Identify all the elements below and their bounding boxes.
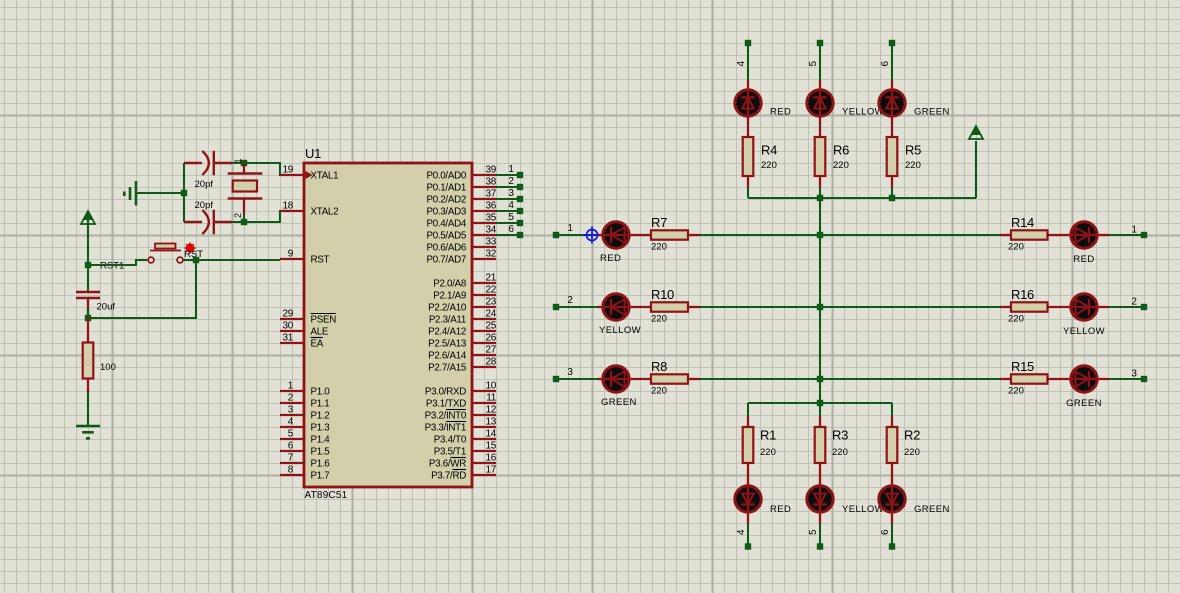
wire ground to cap net (136, 192, 184, 194)
svg-text:GREEN: GREEN (601, 397, 637, 408)
svg-text:XTAL1: XTAL1 (311, 171, 339, 182)
pin 35 P0.4/AD4 stub (472, 222, 496, 224)
terminal 1 (mcu side) (517, 172, 523, 178)
capacitor C1 20pf (184, 151, 232, 175)
wire terminal to LED YELLOW (556, 306, 598, 308)
terminal 2 (row left) (553, 304, 559, 310)
XTAL1 clock marker (306, 171, 313, 179)
wire terminal to LED RED (556, 234, 598, 236)
svg-text:3: 3 (508, 188, 514, 199)
svg-text:R1: R1 (760, 428, 776, 443)
pin 29 PSEN stub (280, 318, 304, 320)
wire power arrow to RST1 node (87, 215, 89, 265)
LED RED (row 1 left) (601, 222, 630, 248)
pin 32 P0.7/AD7 stub (472, 258, 496, 260)
wire R6 to top bus (819, 188, 821, 198)
pin 21 P2.0/A8 stub (472, 282, 496, 284)
svg-text:39: 39 (485, 165, 496, 176)
svg-text:EA: EA (311, 339, 324, 350)
resistor R2 bottom lead (891, 463, 893, 484)
terminal 5 (top) (817, 40, 823, 46)
capacitor C-RST 20uf top lead (87, 265, 89, 291)
terminal 1 (row left) (553, 232, 559, 238)
LED to R7 lead (631, 234, 651, 236)
resistor R3 bottom lead (819, 463, 821, 484)
svg-text:P1.6: P1.6 (311, 459, 331, 470)
resistor R7 body (651, 230, 688, 239)
pin 33 P0.6/AD6 stub (472, 246, 496, 248)
svg-text:P2.1/A9: P2.1/A9 (433, 291, 466, 302)
op: none; U1 AT89C51 body (304, 163, 472, 487)
resistor R2 top lead (891, 416, 893, 427)
svg-text:25: 25 (485, 321, 496, 332)
svg-text:5: 5 (508, 212, 514, 223)
node crystal pin1 junction (241, 160, 247, 166)
resistor R8 right lead (688, 378, 700, 380)
svg-text:GREEN: GREEN (914, 504, 950, 515)
resistor R6 body (815, 137, 826, 176)
terminal 6 (top) (889, 40, 895, 46)
svg-text:38: 38 (485, 177, 496, 188)
wire terminal to LED GREEN (556, 378, 598, 380)
svg-text:R15: R15 (1011, 359, 1034, 374)
svg-text:16: 16 (485, 453, 496, 464)
LED RED top lead (747, 80, 749, 88)
wire trunk (top bus to bottom bus) (819, 198, 821, 403)
resistor R15 body (1011, 374, 1048, 383)
wire LED to terminal 2 right (1109, 306, 1144, 308)
pin 11 P3.1/TXD stub (472, 402, 496, 404)
pin 5 P1.4 stub (280, 438, 304, 440)
wire lower junction to button-right net (88, 260, 196, 318)
svg-text:YELLOW: YELLOW (842, 504, 884, 515)
svg-text:28: 28 (485, 357, 496, 368)
wire terminal to LED YELLOW top (819, 43, 821, 80)
pin 28 P2.7/A15 stub (472, 366, 496, 368)
terminal 4 (bottom) (745, 543, 751, 549)
resistor R16 left lead (1000, 306, 1011, 308)
overline INT1 (446, 421, 466, 423)
wire terminal to LED GREEN top (891, 43, 893, 80)
svg-text:P2.2/A10: P2.2/A10 (428, 303, 467, 314)
svg-text:3: 3 (1131, 369, 1137, 380)
svg-text:P3.6/WR: P3.6/WR (429, 459, 466, 470)
node crystal pin2 junction (241, 219, 247, 225)
button left contact wire (136, 259, 147, 261)
svg-text:9: 9 (288, 249, 294, 260)
resistor R16 body (1011, 302, 1048, 311)
junction row 1 at trunk (817, 232, 823, 238)
svg-text:15: 15 (485, 441, 496, 452)
pin 25 P2.4/A12 stub (472, 330, 496, 332)
svg-text:12: 12 (485, 405, 496, 416)
ground (76, 426, 100, 438)
wire R4 to top bus (747, 188, 749, 198)
svg-text:5: 5 (808, 61, 819, 67)
svg-text:P3.5/T1: P3.5/T1 (434, 447, 466, 458)
pin 26 P2.5/A13 stub (472, 342, 496, 344)
svg-text:GREEN: GREEN (1066, 398, 1102, 409)
LED GREEN (bottom group) (879, 484, 905, 513)
terminal 3 (row right) (1141, 376, 1147, 382)
svg-text:P3.3/INT1: P3.3/INT1 (425, 423, 466, 434)
svg-text:P0.5/AD5: P0.5/AD5 (426, 231, 466, 242)
svg-text:XTAL2: XTAL2 (311, 207, 339, 218)
svg-text:P2.6/A14: P2.6/A14 (428, 351, 467, 362)
svg-text:R14: R14 (1011, 215, 1034, 230)
LED GREEN right lead (1099, 378, 1109, 380)
node button-right junction (193, 257, 199, 263)
pin 17 P3.7/RD stub (472, 474, 496, 476)
svg-text:220: 220 (651, 242, 667, 253)
junction row 2 at trunk (817, 304, 823, 310)
pin 22 P2.1/A9 stub (472, 294, 496, 296)
wire bus to R1 (747, 403, 749, 416)
svg-text:220: 220 (833, 160, 849, 171)
origin marker (blue crosshair) (584, 227, 601, 244)
svg-text:P1.0: P1.0 (311, 387, 331, 398)
svg-text:3: 3 (567, 367, 573, 378)
svg-text:PSEN: PSEN (311, 315, 337, 326)
resistor R15 left lead (1000, 378, 1011, 380)
node RST1 junction (85, 262, 91, 268)
svg-text:5: 5 (288, 429, 294, 440)
svg-text:27: 27 (485, 345, 496, 356)
svg-text:4: 4 (288, 417, 294, 428)
wire row 1 to right side (700, 234, 1000, 236)
wire junction to RST pin (196, 259, 280, 261)
wire P0.4 to terminal 5 (496, 222, 520, 224)
LED GREEN (top group) (879, 88, 905, 117)
LED RED (top group) (735, 88, 761, 117)
wire terminal to LED RED top (747, 43, 749, 80)
wire P0.0 to terminal 1 (496, 174, 520, 176)
pin 36 P0.3/AD3 stub (472, 210, 496, 212)
LED RED (row 1 right) (1069, 222, 1098, 248)
terminal 5 (mcu side) (517, 220, 523, 226)
wire LED to terminal 6 bottom (891, 524, 893, 546)
pin 31 EA stub (280, 342, 304, 344)
LED YELLOW bottom lead (819, 514, 821, 524)
pin 7 P1.6 stub (280, 462, 304, 464)
pin 10 P3.0/RXD stub (472, 390, 496, 392)
wire button to pin9 net (183, 259, 196, 261)
wire resistor to ground (87, 392, 89, 426)
resistor 100 bottom lead (87, 379, 89, 393)
wire top bus (748, 197, 976, 199)
svg-text:R10: R10 (651, 287, 674, 302)
overline PSEN (311, 313, 336, 315)
resistor R2 body (887, 427, 898, 463)
LED YELLOW (row 2 left) (601, 294, 630, 320)
svg-text:19: 19 (282, 165, 293, 176)
pin 4 P1.3 stub (280, 426, 304, 428)
svg-text:R4: R4 (761, 143, 777, 158)
terminal 4 (top) (745, 40, 751, 46)
LED to R5 lead (891, 118, 893, 137)
resistor R3 top lead (819, 416, 821, 427)
junction top bus R5 (889, 195, 895, 201)
svg-text:14: 14 (485, 429, 496, 440)
LED D-YELLOW-left lead (598, 306, 601, 308)
wire bottom bus (748, 402, 892, 404)
svg-text:220: 220 (1008, 386, 1024, 397)
LED to R8 lead (631, 378, 651, 380)
svg-text:P2.4/A12: P2.4/A12 (428, 327, 466, 338)
resistor 100 top lead (87, 318, 89, 343)
svg-text:2: 2 (1131, 297, 1137, 308)
svg-text:RED: RED (1073, 254, 1094, 265)
resistor R7 right lead (688, 234, 700, 236)
wire P0.3 to terminal 4 (496, 210, 520, 212)
svg-text:11: 11 (486, 393, 497, 404)
svg-text:1: 1 (567, 223, 573, 234)
svg-text:P0.2/AD2: P0.2/AD2 (426, 195, 466, 206)
LED YELLOW (top group) (807, 88, 833, 117)
svg-text:220: 220 (1008, 314, 1024, 325)
wire LED to terminal 4 bottom (747, 524, 749, 546)
svg-text:P1.3: P1.3 (311, 423, 331, 434)
pin 1 P1.0 stub (280, 390, 304, 392)
power terminal up-arrow (top right) (969, 126, 983, 139)
pin 38 P0.1/AD1 stub (472, 186, 496, 188)
LED GREEN (row 3 left) (601, 366, 630, 392)
svg-text:4: 4 (736, 61, 747, 67)
crystal X1 top plate (228, 172, 263, 175)
svg-text:29: 29 (282, 309, 293, 320)
button RST right contact (177, 257, 183, 263)
svg-text:RED: RED (600, 253, 621, 264)
svg-text:20uf: 20uf (97, 302, 116, 313)
svg-text:100: 100 (100, 362, 116, 373)
svg-text:R6: R6 (833, 143, 849, 158)
resistor R1 body (743, 427, 754, 463)
svg-text:R7: R7 (651, 215, 667, 230)
svg-text:P0.4/AD4: P0.4/AD4 (426, 219, 466, 230)
svg-text:P0.1/AD1: P0.1/AD1 (426, 183, 466, 194)
svg-text:P2.3/A11: P2.3/A11 (429, 315, 466, 326)
svg-text:34: 34 (485, 225, 496, 236)
resistor R14 left lead (1000, 234, 1011, 236)
pin 2 P1.1 stub (280, 402, 304, 404)
svg-text:P2.7/A15: P2.7/A15 (428, 363, 467, 374)
wire bus to R2 (891, 403, 893, 416)
svg-text:YELLOW: YELLOW (599, 325, 641, 336)
LED RED right lead (1099, 234, 1109, 236)
pin 9 RST stub (280, 258, 304, 260)
pin 14 P3.4/T0 stub (472, 438, 496, 440)
svg-text:U1: U1 (305, 146, 321, 161)
svg-text:1: 1 (233, 158, 243, 163)
resistor R1 top lead (747, 416, 749, 427)
overline RD (453, 469, 466, 471)
svg-text:P1.5: P1.5 (311, 447, 331, 458)
svg-text:6: 6 (288, 441, 294, 452)
pin 3 P1.2 stub (280, 414, 304, 416)
LED RED bottom lead (747, 514, 749, 524)
resistor R5 body (887, 137, 898, 176)
pin 15 P3.5/T1 stub (472, 450, 496, 452)
svg-text:6: 6 (508, 224, 514, 235)
wire LED to terminal 1 right (1109, 234, 1144, 236)
svg-text:220: 220 (651, 314, 667, 325)
wire cap left vertical (183, 163, 185, 222)
wire P0.5 to terminal 6 (496, 234, 520, 236)
svg-text:21: 21 (485, 273, 496, 284)
button RST actuator (155, 244, 176, 249)
pin 30 ALE stub (280, 330, 304, 332)
svg-text:2: 2 (288, 393, 294, 404)
ground (crystal) left-pointing (124, 181, 136, 206)
button RST left contact (148, 257, 154, 263)
wire bus to R3 (819, 403, 821, 416)
svg-text:4: 4 (508, 200, 514, 211)
svg-text:33: 33 (485, 237, 496, 248)
wire RST1 node to button (88, 260, 146, 265)
LED YELLOW right lead (1099, 306, 1109, 308)
svg-text:24: 24 (485, 309, 496, 320)
resistor R10 right lead (688, 306, 700, 308)
wire row 2 to right side (700, 306, 1000, 308)
svg-text:RST: RST (311, 255, 330, 266)
svg-text:1: 1 (288, 381, 294, 392)
resistor R6 bottom lead (819, 176, 821, 188)
terminal 1 (row right) (1141, 232, 1147, 238)
svg-text:P3.7/RD: P3.7/RD (431, 471, 466, 482)
svg-text:4: 4 (736, 529, 747, 535)
svg-text:P3.4/T0: P3.4/T0 (434, 435, 467, 446)
svg-text:1: 1 (508, 164, 514, 175)
svg-text:220: 220 (761, 160, 777, 171)
wire C1 to XTAL1 (232, 163, 281, 175)
wire C2 to XTAL2 (232, 211, 281, 222)
terminal 6 (mcu side) (517, 232, 523, 238)
svg-text:RED: RED (770, 107, 791, 118)
wire row 3 to right side (700, 378, 1000, 380)
svg-text:P3.2/INT0: P3.2/INT0 (425, 411, 467, 422)
power terminal up-arrow (reset supply) (81, 211, 95, 224)
capacitor C-RST bottom lead (87, 298, 89, 318)
svg-text:220: 220 (1008, 242, 1024, 253)
resistor R3 body (815, 427, 826, 463)
junction top bus R6 (817, 195, 823, 201)
svg-text:P1.2: P1.2 (311, 411, 330, 422)
resistor 100 body (83, 343, 94, 379)
svg-text:32: 32 (485, 249, 496, 260)
svg-text:220: 220 (904, 447, 920, 458)
overline EA (311, 337, 323, 339)
svg-text:YELLOW: YELLOW (842, 107, 884, 118)
svg-text:220: 220 (905, 160, 921, 171)
pin 16 P3.6/WR stub (472, 462, 496, 464)
LED to R10 lead (631, 306, 651, 308)
terminal 5 (bottom) (817, 543, 823, 549)
LED GREEN top lead (891, 80, 893, 88)
svg-text:37: 37 (485, 189, 496, 200)
pin 6 P1.5 stub (280, 450, 304, 452)
svg-text:AT89C51: AT89C51 (305, 490, 348, 501)
svg-text:7: 7 (288, 453, 294, 464)
pin 37 P0.2/AD2 stub (472, 198, 496, 200)
svg-text:220: 220 (760, 447, 776, 458)
node lower junction (85, 315, 91, 321)
svg-text:20pf: 20pf (195, 200, 214, 211)
pin 39 P0.0/AD0 stub (472, 174, 496, 176)
overline WR (450, 457, 466, 459)
terminal 3 (mcu side) (517, 196, 523, 202)
resistor R15 right lead (1048, 378, 1070, 380)
svg-text:18: 18 (282, 201, 293, 212)
overline INT0 (446, 409, 466, 411)
terminal 4 (mcu side) (517, 208, 523, 214)
svg-text:YELLOW: YELLOW (1063, 326, 1105, 337)
capacitor C2 20pf (184, 210, 232, 234)
svg-text:20pf: 20pf (195, 179, 214, 190)
svg-text:P0.7/AD7: P0.7/AD7 (426, 255, 466, 266)
svg-text:1: 1 (1131, 225, 1137, 236)
terminal 3 (row left) (553, 376, 559, 382)
node cap-net junction (181, 190, 187, 196)
svg-text:22: 22 (485, 285, 496, 296)
pin 24 P2.3/A11 stub (472, 318, 496, 320)
svg-text:RED: RED (770, 504, 791, 515)
pin 34 P0.5/AD5 stub (472, 234, 496, 236)
svg-text:220: 220 (651, 386, 667, 397)
svg-text:13: 13 (485, 417, 496, 428)
svg-text:R5: R5 (905, 143, 921, 158)
wire cap to lower junction (87, 308, 89, 318)
svg-text:31: 31 (282, 333, 293, 344)
pin 18 XTAL2 stub (280, 210, 304, 212)
LED YELLOW (row 2 right) (1069, 294, 1098, 320)
resistor R4 bottom lead (747, 176, 749, 188)
svg-text:P1.4: P1.4 (311, 435, 331, 446)
junction bottom bus trunk (817, 400, 823, 406)
resistor R8 body (651, 374, 688, 383)
pin 19 XTAL1 stub (280, 174, 304, 176)
svg-text:23: 23 (485, 297, 496, 308)
LED YELLOW (bottom group) (807, 484, 833, 513)
crystal X1 bottom plate (228, 197, 263, 200)
resistor R10 body (651, 302, 688, 311)
LED D-RED-left lead (598, 234, 601, 236)
terminal 6 (bottom) (889, 543, 895, 549)
button red actuation marker (185, 243, 196, 254)
LED to R4 lead (747, 118, 749, 137)
svg-text:R3: R3 (832, 428, 848, 443)
LED GREEN bottom lead (891, 514, 893, 524)
svg-text:220: 220 (832, 447, 848, 458)
resistor R1 bottom lead (747, 463, 749, 484)
svg-text:2: 2 (508, 176, 514, 187)
svg-text:R2: R2 (904, 428, 920, 443)
LED to R6 lead (819, 118, 821, 137)
resistor R5 bottom lead (891, 176, 893, 188)
capacitor C-RST 20uf plates (76, 292, 100, 298)
wire R5 to top bus (891, 188, 893, 198)
svg-text:35: 35 (485, 213, 496, 224)
wire LED to terminal 5 bottom (819, 524, 821, 546)
svg-text:P0.0/AD0: P0.0/AD0 (426, 171, 466, 182)
svg-text:8: 8 (288, 465, 294, 476)
svg-text:3: 3 (288, 405, 294, 416)
svg-text:R8: R8 (651, 359, 667, 374)
svg-text:36: 36 (485, 201, 496, 212)
button RST plunger bar (150, 250, 181, 252)
svg-text:5: 5 (808, 529, 819, 535)
wire crystal to pin2 node (243, 214, 245, 222)
svg-text:P3.0/RXD: P3.0/RXD (425, 387, 466, 398)
